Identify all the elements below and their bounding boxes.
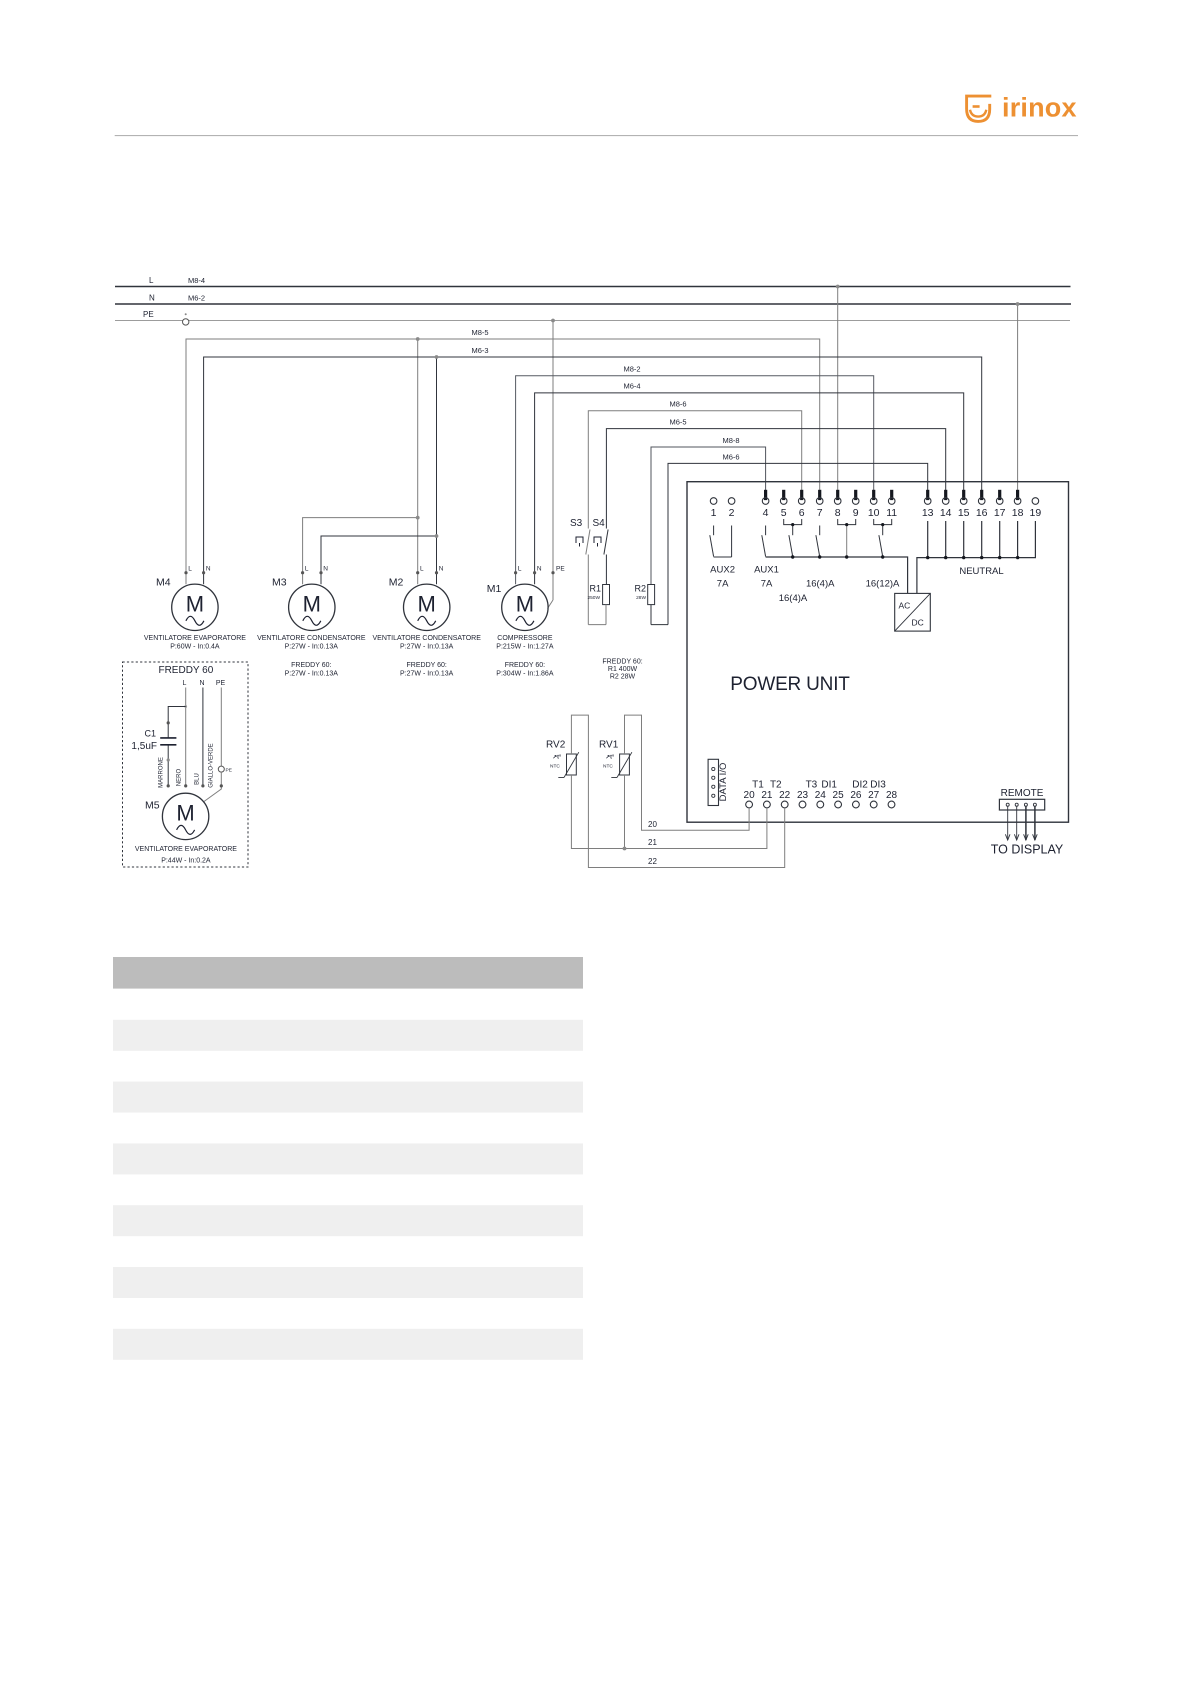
relay contact terminal 7 [816,526,820,557]
svg-text:DC: DC [912,618,924,628]
bus L (M8-4) [115,276,1071,287]
svg-text:VENTILATORE EVAPORATORE: VENTILATORE EVAPORATORE [135,846,237,853]
table header row [113,957,583,989]
terminal 22 [779,790,791,808]
wires remote to display [1005,806,1037,840]
terminal 26 [850,790,862,808]
svg-text:250W: 250W [587,595,600,601]
svg-text:DI1: DI1 [821,780,837,791]
terminal 23 [797,790,809,808]
motor M2 [389,566,450,631]
wire M8-2 [516,365,874,585]
svg-text:19: 19 [1030,507,1042,519]
motor M4 [156,566,218,631]
resistor R1 [587,584,609,625]
svg-text:VENTILATORE CONDENSATORE: VENTILATORE CONDENSATORE [257,635,366,642]
svg-text:M8-2: M8-2 [623,365,640,374]
label FREDDY 60 R1 R2 values [602,659,642,681]
wire PE bus to motor M1 [548,319,566,609]
terminal 8 [834,490,841,519]
label M2 value [373,635,482,678]
svg-text:S3: S3 [570,518,583,529]
AC/DC converter [895,593,931,631]
svg-text:25: 25 [833,790,845,801]
svg-text:P:27W - In:0.13A: P:27W - In:0.13A [400,644,454,651]
svg-text:FREDDY 60:: FREDDY 60: [602,659,642,666]
terminal 24 [815,790,827,808]
svg-text:22: 22 [648,857,657,866]
wire 22 (RV2 to T2) [571,715,784,867]
terminal 27 [868,790,880,808]
relay contact AUX2 [710,526,732,558]
svg-text:POWER UNIT: POWER UNIT [730,674,850,695]
terminal 25 [833,790,845,808]
svg-text:COMPRESSORE: COMPRESSORE [497,635,553,642]
capacitor C1 [131,729,176,753]
svg-text:16: 16 [976,507,988,519]
wire NERO (L) [176,688,187,788]
svg-text:16(4)A: 16(4)A [806,579,835,590]
svg-text:R2: R2 [634,584,646,594]
irinox logo icon [967,96,992,121]
wire M6-4 [535,382,964,585]
terminal 11 [886,490,897,519]
svg-text:L: L [149,276,154,285]
svg-text:21: 21 [761,790,773,801]
svg-text:M6-2: M6-2 [188,294,205,303]
relay contact AUX1 [762,526,766,557]
header rule [115,135,1078,137]
label AUX1 7A [754,565,779,590]
svg-text:FREDDY 60:: FREDDY 60: [407,662,447,669]
svg-text:T1: T1 [752,780,764,791]
power unit box U1 [687,482,1069,823]
svg-text:C1: C1 [144,729,156,739]
svg-text:N: N [537,566,542,573]
svg-text:8: 8 [835,507,841,519]
svg-text:R1: R1 [589,584,601,594]
svg-text:MARRONE: MARRONE [159,757,165,788]
svg-text:21: 21 [648,838,657,847]
wire 20 (RV1 to T1) [625,715,750,830]
wire M6-6 [668,453,928,625]
svg-text:PE: PE [143,310,154,319]
svg-text:NTC: NTC [550,764,560,770]
resistor R2 [634,584,668,625]
terminal 13 [922,490,934,519]
svg-text:AC: AC [899,601,911,611]
svg-text:N: N [206,566,211,573]
svg-text:DI2: DI2 [852,780,868,791]
terminal 9 [852,490,859,519]
wire M6-3 [204,357,982,584]
ground symbol on PE bus [183,313,189,325]
svg-text:M6-6: M6-6 [722,453,739,462]
svg-text:AUX1: AUX1 [754,565,779,576]
terminal 10 [868,490,880,519]
connector DATA I/O [708,759,729,805]
thermistor RV1 [599,740,632,778]
svg-text:irinox: irinox [1002,93,1077,123]
svg-text:PE: PE [216,680,226,687]
svg-text:P:27W - In:0.13A: P:27W - In:0.13A [285,644,339,651]
svg-text:M6-3: M6-3 [471,346,488,355]
svg-text:R1 400W: R1 400W [608,666,638,673]
svg-text:P:304W - In:1.86A: P:304W - In:1.86A [496,671,554,678]
svg-text:M3: M3 [272,577,287,589]
svg-text:P:215W - In:1.27A: P:215W - In:1.27A [496,644,554,651]
svg-text:TO DISPLAY: TO DISPLAY [991,843,1064,857]
svg-text:20: 20 [744,790,756,801]
svg-text:FREDDY 60:: FREDDY 60: [291,662,331,669]
label M1 value [496,635,554,678]
svg-text:7: 7 [817,507,823,519]
table row 4 [113,1205,583,1236]
label M4 value [144,635,246,651]
svg-text:23: 23 [797,790,809,801]
svg-text:11: 11 [886,507,897,519]
terminal 20 [744,790,756,808]
svg-text:1,5uF: 1,5uF [131,741,157,752]
terminal 21 [761,790,773,808]
svg-text:N: N [199,680,204,687]
neutral bus [917,521,1036,593]
svg-text:10: 10 [868,507,880,519]
wire BLU (N) [194,688,204,788]
svg-text:VENTILATORE EVAPORATORE: VENTILATORE EVAPORATORE [144,635,246,642]
terminal 5 [780,490,787,519]
label M3 value [257,635,366,678]
terminal 18 [1012,490,1024,519]
svg-text:M6-5: M6-5 [669,418,686,427]
svg-text:FREDDY 60:: FREDDY 60: [505,662,545,669]
table row 2 [113,1082,583,1113]
svg-text:M1: M1 [487,583,502,595]
svg-text:REMOTE: REMOTE [1001,788,1044,799]
svg-text:M: M [418,591,436,616]
svg-text:L: L [305,566,309,573]
terminal 16 [976,490,988,519]
svg-text:M8-8: M8-8 [722,436,739,445]
svg-text:AUX2: AUX2 [710,565,735,576]
svg-text:M: M [516,591,534,616]
svg-text:16(12)A: 16(12)A [866,579,900,590]
svg-text:M: M [186,591,204,616]
svg-text:20: 20 [648,820,657,829]
svg-text:PE: PE [226,768,232,774]
svg-text:M5: M5 [145,800,160,812]
svg-text:RV2: RV2 [546,740,566,751]
svg-text:P:27W - In:0.13A: P:27W - In:0.13A [400,671,454,678]
svg-text:13: 13 [922,507,934,519]
svg-text:↗t°: ↗t° [606,755,615,761]
bridge terminals 8-9 [838,519,856,557]
svg-text:RV1: RV1 [599,740,619,751]
terminal 4 [762,490,769,519]
table row 6 [113,1329,583,1360]
svg-text:22: 22 [779,790,791,801]
svg-text:14: 14 [940,507,952,519]
table row 3 [113,1143,583,1174]
svg-text:NTC: NTC [603,764,613,770]
svg-text:N: N [323,566,328,573]
svg-text:1: 1 [711,507,717,519]
switch S3 [570,518,590,625]
wire N bus to terminal 18 [1016,302,1020,491]
wire MARRONE with capacitor branch [159,707,186,788]
svg-text:7A: 7A [761,579,773,590]
svg-text:R2 28W: R2 28W [610,674,636,681]
svg-text:P:27W - In:0.13A: P:27W - In:0.13A [285,671,339,678]
wire 21 (RV1/RV2 to T1) [571,775,767,850]
terminal 15 [958,490,970,519]
motor M3 [272,566,335,631]
svg-text:P:60W - In:0.4A: P:60W - In:0.4A [170,644,220,651]
label M5 value [135,846,237,865]
svg-text:N: N [149,294,155,303]
svg-text:4: 4 [763,507,769,519]
svg-text:M8-6: M8-6 [669,400,686,409]
svg-text:7A: 7A [717,579,729,590]
svg-text:S4: S4 [593,518,606,529]
terminal 2 [728,498,735,519]
svg-text:16(4)A: 16(4)A [779,593,808,604]
svg-text:18: 18 [1012,507,1024,519]
switch S4 [593,518,609,585]
svg-text:M6-4: M6-4 [623,382,640,391]
connector REMOTE [999,788,1044,810]
svg-text:DATA I/O: DATA I/O [718,763,729,802]
svg-text:L: L [518,566,522,573]
relay output bus [766,555,908,593]
terminal 1 [710,498,717,519]
svg-text:NERO: NERO [176,769,182,787]
svg-text:M8-5: M8-5 [471,328,488,337]
svg-text:PE: PE [556,566,565,573]
FREDDY 60 dashed box [123,662,249,867]
svg-text:P:44W - In:0.2A: P:44W - In:0.2A [161,858,211,865]
svg-text:5: 5 [781,507,787,519]
terminal 28 [886,790,898,808]
wire GIALLO-VERDE (PE) [204,688,232,802]
svg-text:15: 15 [958,507,970,519]
svg-text:VENTILATORE CONDENSATORE: VENTILATORE CONDENSATORE [373,635,482,642]
relay contact terminals 5-6 [784,519,802,557]
label AUX2 7A [710,565,735,590]
terminal 19 [1030,498,1042,519]
table row 5 [113,1267,583,1298]
svg-text:GIALLO-VERDE: GIALLO-VERDE [209,743,215,787]
wire M8-5 [186,339,820,584]
motor M5 [145,793,209,839]
svg-text:↗t°: ↗t° [553,755,562,761]
terminal 6 [798,490,805,519]
wire M8-6 [588,400,801,529]
svg-text:M: M [303,591,321,616]
terminal 14 [940,490,952,519]
wire M8-8 [651,436,766,585]
wire L bus to terminal 8 [836,285,840,491]
svg-text:L: L [188,566,192,573]
svg-text:M4: M4 [156,577,171,589]
svg-text:T2: T2 [770,780,782,791]
svg-text:BLU: BLU [194,773,200,785]
svg-text:28: 28 [886,790,898,801]
svg-text:27: 27 [868,790,880,801]
svg-text:FREDDY 60: FREDDY 60 [158,665,213,676]
svg-text:2: 2 [729,507,735,519]
terminal 7 [816,490,823,519]
terminal 17 [994,490,1006,519]
svg-text:M: M [176,800,194,825]
table row 1 [113,1020,583,1051]
motor M1 compressor [487,566,548,631]
relay contact terminals 10-11 [874,519,892,557]
bus PE [115,310,1070,321]
svg-text:9: 9 [853,507,859,519]
svg-text:28W: 28W [636,595,646,601]
wire M6-5 [606,418,945,529]
svg-text:DI3: DI3 [870,780,886,791]
svg-text:M8-4: M8-4 [188,276,205,285]
svg-text:T3: T3 [806,780,818,791]
svg-text:24: 24 [815,790,827,801]
svg-text:L: L [420,566,424,573]
thermistor RV2 [546,740,579,778]
svg-text:17: 17 [994,507,1006,519]
svg-text:N: N [439,566,444,573]
bus N (M6-2) [115,294,1071,305]
svg-text:M2: M2 [389,577,404,589]
svg-text:6: 6 [799,507,805,519]
svg-text:L: L [183,680,187,687]
svg-text:NEUTRAL: NEUTRAL [959,566,1003,577]
svg-text:26: 26 [850,790,862,801]
